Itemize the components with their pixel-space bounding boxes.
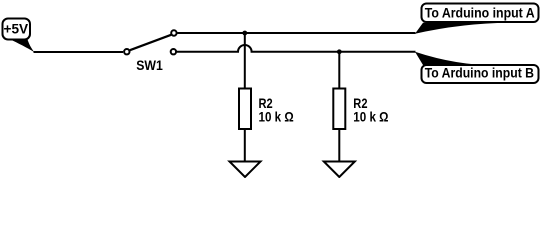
wire: node B down to resistor R2b xyxy=(338,52,340,89)
ground (second) xyxy=(324,162,355,178)
wire: SW1 top contact to node A / input A xyxy=(177,32,415,34)
wire: node A down to resistor R2a xyxy=(244,33,246,89)
junction node B xyxy=(337,49,342,54)
switch SW1 xyxy=(124,30,176,54)
label R2 10 k Ohm (second) xyxy=(353,96,388,125)
flag: To Arduino input B xyxy=(415,52,539,83)
svg-text:To Arduino input B: To Arduino input B xyxy=(425,65,534,80)
wire: +5V to SW1 common xyxy=(34,51,124,53)
svg-text:To Arduino input A: To Arduino input A xyxy=(425,6,535,21)
power flag +5V xyxy=(3,19,35,53)
svg-text:10 k Ω: 10 k Ω xyxy=(259,108,294,124)
wire: resistor R2a to ground xyxy=(244,129,246,162)
label SW1 xyxy=(136,58,163,73)
wire: SW1 bottom contact to node B / input B (hops over R2a wire) xyxy=(177,45,416,52)
label R2 10 k Ohm (first) xyxy=(259,96,294,125)
ground (first) xyxy=(230,162,261,178)
svg-text:+5V: +5V xyxy=(4,22,29,37)
resistor R2 (first) xyxy=(239,89,251,130)
resistor R2 (second) xyxy=(333,89,345,130)
junction node A xyxy=(242,31,247,36)
flag: To Arduino input A xyxy=(415,4,539,34)
wire: resistor R2b to ground xyxy=(338,129,340,162)
svg-text:SW1: SW1 xyxy=(136,58,163,73)
svg-text:10 k Ω: 10 k Ω xyxy=(353,108,388,124)
